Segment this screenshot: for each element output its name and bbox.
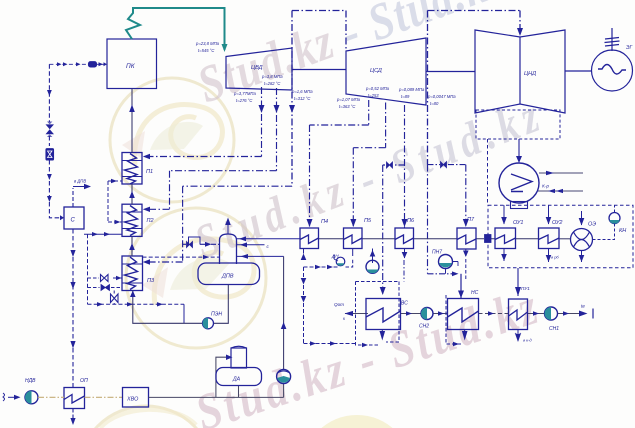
watermark band B middle <box>188 88 551 269</box>
svg-text:р=3,8 МПа: р=3,8 МПа <box>261 74 283 79</box>
deaerator DA <box>231 348 247 368</box>
svg-text:ОЭ: ОЭ <box>588 222 596 228</box>
NS drains <box>464 330 466 338</box>
extraction 1 line to P1 <box>146 87 262 157</box>
boiler PK <box>107 39 157 89</box>
svg-text:ПУ1: ПУ1 <box>521 286 530 291</box>
DA pump <box>277 370 291 384</box>
turbine HP cylinder CVD <box>226 48 292 90</box>
drains below <box>503 249 505 262</box>
pump SN1 <box>545 307 558 320</box>
generator leads <box>611 28 613 51</box>
svg-text:t=276 °С: t=276 °С <box>236 98 253 103</box>
feed line into boiler <box>49 63 107 65</box>
left feed column <box>46 62 185 425</box>
svg-text:ДПВ: ДПВ <box>221 274 234 280</box>
PU1 drain <box>517 330 519 342</box>
logo circle upper left <box>110 78 234 202</box>
svg-text:ЦНД: ЦНД <box>524 71 536 77</box>
C box <box>64 207 84 229</box>
cold reheat branch to P3 <box>146 186 292 262</box>
right side inlets <box>237 238 301 240</box>
heater P6 <box>395 228 414 249</box>
svg-text:в ДПВ: в ДПВ <box>74 179 86 184</box>
drains manifold x87 <box>87 234 89 304</box>
svg-text:ХВО: ХВО <box>126 397 139 403</box>
VS drains <box>381 330 383 338</box>
svg-text:НС: НС <box>471 290 479 296</box>
heater P2 <box>122 204 142 236</box>
svg-text:в к-д: в к-д <box>523 338 532 343</box>
svg-text:ОП: ОП <box>80 378 88 384</box>
svg-text:ПН7: ПН7 <box>432 250 442 256</box>
WATERMARKS <box>78 0 551 428</box>
svg-text:ОУ1: ОУ1 <box>513 220 523 226</box>
PU1 steam feed from ejector box <box>517 268 519 296</box>
P3 drain to deaerator <box>143 256 220 258</box>
C to deaerator vent <box>72 188 74 207</box>
PU1 heater <box>509 299 528 330</box>
network heating row <box>345 268 594 347</box>
svg-text:ЦВД: ЦВД <box>251 65 263 71</box>
cooling water lines <box>538 173 583 191</box>
KN pump <box>609 213 620 224</box>
branch P6 line to VS with valve <box>383 164 405 166</box>
HP heaters column <box>84 89 220 291</box>
svg-text:К-р: К-р <box>542 184 549 190</box>
ejector group dashed box <box>488 139 634 268</box>
extraction to P5 <box>353 103 385 229</box>
pump under P5/P6 <box>372 249 374 264</box>
treated water to DA and pump <box>149 357 284 397</box>
svg-text:ДН: ДН <box>331 254 339 259</box>
svg-text:t=282 °С: t=282 °С <box>264 81 281 86</box>
svg-text:ЦСД: ЦСД <box>370 68 382 74</box>
feed down to PEN <box>133 285 229 324</box>
svg-text:П3: П3 <box>147 278 155 284</box>
svg-text:П2: П2 <box>147 218 154 224</box>
svg-text:t=363 °С: t=363 °С <box>339 104 356 109</box>
svg-text:С: С <box>71 218 76 224</box>
svg-text:ОУ2: ОУ2 <box>552 220 562 226</box>
crossover CSD to CND <box>427 11 429 165</box>
turbine LP cylinder CND <box>475 30 565 113</box>
pressure annotations <box>195 41 456 109</box>
branch CSD exhaust to P7 with valve <box>428 164 466 166</box>
svg-text:ВС: ВС <box>401 301 408 307</box>
svg-text:t=89: t=89 <box>401 94 410 99</box>
drain line to DN pump <box>304 266 339 268</box>
P6 drain <box>404 249 406 259</box>
P5 drain / riser <box>352 249 354 257</box>
bottom left chain <box>3 346 291 407</box>
turbine IP cylinder CSD <box>346 38 426 105</box>
shaft CSD-CND <box>426 71 475 73</box>
svg-text:ДА: ДА <box>232 377 241 383</box>
svg-text:tв: tв <box>581 304 585 309</box>
heater P7 <box>457 228 476 249</box>
main steam line (teal) <box>126 8 225 50</box>
OE ejector cooler <box>571 229 593 251</box>
riser from DA pump to DPV <box>283 256 285 369</box>
P1 drain cascade to P2 <box>108 180 122 182</box>
watermark band C bottom <box>189 277 547 428</box>
svg-text:П6: П6 <box>407 218 415 224</box>
svg-text:р=1,07 МПа: р=1,07 МПа <box>336 97 361 102</box>
reheat loop left (CVD exhaust to reheater to CSD) <box>292 11 520 187</box>
heater P3 <box>122 256 143 291</box>
svg-text:ПЭН: ПЭН <box>211 312 222 318</box>
XVO box <box>123 388 149 408</box>
valve (filled bowtie) on deaerator steam line <box>187 242 193 248</box>
extraction to P6 <box>404 105 406 228</box>
CSD exhaust down to NS heater <box>427 165 429 274</box>
svg-text:р=0,0047 МПа: р=0,0047 МПа <box>427 94 456 99</box>
heater P5 <box>344 228 363 249</box>
heater P4 <box>300 228 319 249</box>
deaerator DPV <box>130 218 300 370</box>
vent arrow up <box>227 221 229 234</box>
logo circle bottom left arc <box>78 406 214 428</box>
pump DN <box>336 257 345 266</box>
LP exhaust dashed box <box>476 110 560 139</box>
LP heaters row P4-P7 <box>300 228 571 346</box>
filled reducing valve symbol <box>46 149 54 160</box>
svg-text:П5: П5 <box>364 218 372 224</box>
shaft CND-generator <box>565 70 592 72</box>
deaerator steam branch with valve <box>183 243 186 245</box>
svg-text:П7: П7 <box>467 217 475 223</box>
feedwater chain P3-P2-P1-boiler <box>131 89 133 256</box>
svg-text:р=3,77МПа: р=3,77МПа <box>233 91 256 96</box>
pump NDV <box>25 391 38 404</box>
svg-text:р=1,6 МПа: р=1,6 МПа <box>291 89 313 94</box>
OU1 <box>495 228 516 249</box>
network water line <box>345 313 586 315</box>
steam arrows into coolers <box>503 205 505 224</box>
svg-text:t=545 °С: t=545 °С <box>198 48 215 53</box>
svg-text:СН1: СН1 <box>549 326 559 332</box>
condenser K <box>518 139 520 161</box>
svg-text:р=23,8 МПа: р=23,8 МПа <box>195 41 220 46</box>
svg-text:t=312 °С: t=312 °С <box>294 96 311 101</box>
svg-text:П4: П4 <box>321 219 328 225</box>
P4 drain down <box>304 267 356 344</box>
pump SN2 <box>421 308 433 320</box>
svg-text:ПК: ПК <box>126 63 136 70</box>
generator EG <box>592 50 633 91</box>
svg-text:t=80: t=80 <box>430 101 439 106</box>
extraction to P4 <box>310 100 369 228</box>
P7 drains and PN7 pump <box>465 249 467 256</box>
raw water line (tan) <box>38 396 123 398</box>
OP heat exchanger <box>64 388 85 409</box>
vertical valve on left line <box>46 124 55 134</box>
shaft CVD-CSD <box>292 69 346 71</box>
condenser hotwell <box>511 202 528 209</box>
svg-text:П1: П1 <box>146 169 153 175</box>
makeup water inlet <box>3 393 5 401</box>
svg-text:в рб: в рб <box>551 255 559 260</box>
NS heater <box>448 299 479 330</box>
svg-text:Qот: Qот <box>334 302 344 307</box>
logo circle mid left <box>126 208 266 348</box>
VS heater <box>366 299 401 330</box>
heater P1 <box>122 153 142 185</box>
svg-text:СН2: СН2 <box>419 324 429 330</box>
watermark band A top <box>191 0 513 114</box>
condensate main line segments <box>319 238 571 240</box>
OU2 <box>539 228 560 249</box>
svg-text:р=0,089 МПа: р=0,089 МПа <box>398 87 425 92</box>
pump PEN <box>203 318 214 329</box>
logo blob bottom center <box>302 415 412 428</box>
left vertical line <box>48 64 50 122</box>
vertical valve under P3 <box>113 291 115 305</box>
svg-text:р=0,52 МПа: р=0,52 МПа <box>365 86 390 91</box>
svg-text:КН: КН <box>619 228 626 234</box>
C down to OP <box>72 229 74 388</box>
pipe bridge over <box>189 237 201 245</box>
extraction 2 line to P2 <box>146 88 277 209</box>
line C-box to P2 <box>84 233 122 235</box>
svg-text:НДВ: НДВ <box>25 378 36 384</box>
svg-text:t=253: t=253 <box>368 93 379 98</box>
